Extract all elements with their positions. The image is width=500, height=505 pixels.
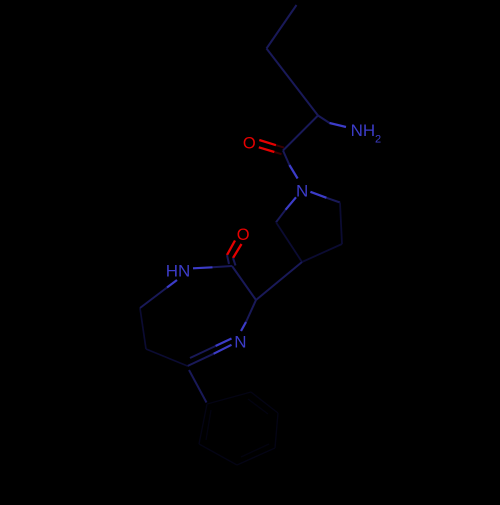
bond chain bond CH3-CH2 top (267, 5, 297, 49)
bond phenyl inner double P6-P1 (206, 410, 211, 440)
bond bond N1-C2 carbon half (dark) (213, 266, 233, 267)
bond chain bond CH2 to alpha CH apex (267, 49, 319, 116)
bond bond amide C to pyrrolidine N, nitrogen half (bright) (289, 165, 297, 179)
bond phenyl edge P1-P2 (207, 392, 251, 404)
bond amide C=O double, dark carbon-side tails (276, 145, 284, 147)
bond bond C5-C6 faint (146, 349, 188, 366)
bond bond amide C to pyrrolidine N, carbon half (dark) (283, 151, 289, 166)
bond N4=C5 double, inner line bright nitrogen half (216, 339, 232, 347)
bond N4=C5 double, outer line dark carbon half (188, 354, 214, 366)
bond phenyl edge P4-P5 (237, 448, 275, 465)
bond pyrrolidine N-C2' nitrogen half (bright) (310, 192, 326, 198)
bond N4=C5 double, inner line dark carbon half (190, 346, 216, 358)
bond phenyl edge P2-P3 (251, 392, 278, 413)
bond bond C3-N4 carbon half (dark) (246, 300, 256, 322)
bond ring C2=O double, red segments near O (227, 241, 235, 256)
bond bond C5 to phenyl ipso carbon (189, 370, 207, 403)
bond bond C6-C7 faint (140, 308, 146, 349)
bond bond alpha CH to amide carbonyl C (283, 116, 318, 151)
bond phenyl inner double P4-P5 (241, 444, 269, 457)
bond amide C=O double, red segments near O (259, 140, 276, 145)
svg-text:O: O (243, 135, 256, 153)
bond bond N1-C2 nitrogen half (bright) (193, 267, 213, 268)
bond phenyl inner double P2-P3 (248, 399, 268, 414)
svg-text:HN: HN (166, 261, 191, 280)
bond phenyl edge P6-P1 (199, 404, 207, 444)
bond bond C7-N1 carbon half (dark) (140, 288, 167, 309)
bond bond C2-C3 (232, 266, 256, 300)
bond bond pyrrolidine C4' to diazepine C3 (256, 262, 302, 300)
bond phenyl edge P3-P4 (275, 413, 278, 448)
bond pyrrolidine N-C5' nitrogen half (bright) (286, 197, 297, 210)
bond bond C7-N1 nitrogen half (bright) (167, 280, 177, 288)
bond bond alpha CH to NH2, nitrogen half (bright) (330, 123, 347, 127)
bond pyrrolidine N-C2' carbon half (dark) (327, 198, 341, 203)
bond bond C3-N4 nitrogen half (bright) (241, 322, 246, 331)
bond pyrrolidine N-C5' carbon half (dark) (276, 210, 286, 223)
bond pyrrolidine C4'-C5' edge faint (276, 222, 302, 262)
svg-text:2: 2 (375, 134, 381, 146)
svg-text:NH: NH (351, 121, 376, 140)
bond N4=C5 double, outer line bright nitrogen half (214, 345, 232, 354)
bond pyrrolidine C2'-C3' edge faint (340, 203, 342, 245)
svg-text:N: N (234, 333, 246, 352)
svg-text:O: O (237, 226, 250, 244)
svg-text:N: N (296, 181, 308, 200)
bond pyrrolidine C3'-C4' edge faint (302, 244, 342, 262)
bond ring C2=O double, dark carbon-side tails (227, 255, 229, 264)
bond phenyl edge P5-P6 (199, 444, 237, 465)
bond bond alpha CH to NH2, carbon half (dark) (318, 116, 330, 124)
